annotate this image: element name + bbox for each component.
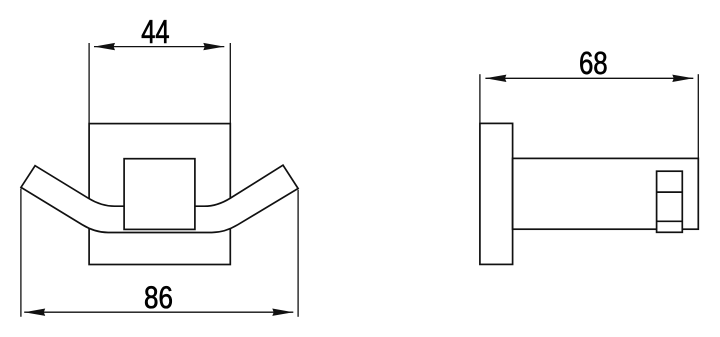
dimension 68 arrow right	[672, 75, 693, 82]
dimension 86 extension line left	[20, 189, 22, 317]
dimension 68 arrow left	[485, 75, 506, 82]
dimension 86 line	[24, 311, 293, 313]
dimension 86 text	[145, 286, 172, 308]
dimension 44 arrow left	[94, 43, 115, 50]
hook mounting block square	[124, 159, 195, 230]
front view wall plate	[89, 124, 230, 265]
side view hook tip upper divider	[657, 191, 683, 193]
hook bar front view	[21, 165, 298, 232]
dimension 68 text	[580, 52, 606, 75]
side view hook arm	[513, 158, 699, 229]
dimension 44 text	[142, 20, 169, 43]
dimension 44 line	[94, 46, 224, 48]
side view hook tip block	[657, 171, 683, 232]
dimension 68 line	[485, 77, 693, 79]
dimension 68 extension line left	[479, 74, 481, 122]
dimension 44 extension line left	[88, 43, 90, 123]
dimension 86 arrow left	[24, 309, 45, 316]
dimension 86 arrow right	[272, 309, 293, 316]
dimension 44 arrow right	[203, 43, 224, 50]
side view hook tip lower divider	[657, 220, 683, 222]
side view wall plate	[480, 123, 513, 264]
dimension 68 extension line right	[697, 74, 699, 158]
dimension 86 extension line right	[297, 190, 299, 317]
dimension 44 extension line right	[229, 43, 231, 123]
